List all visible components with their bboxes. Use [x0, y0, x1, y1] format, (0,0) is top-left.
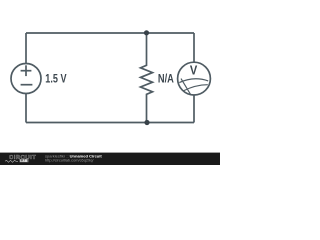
- svg-text:N/A: N/A: [158, 73, 175, 86]
- svg-text:1.5 V: 1.5 V: [45, 72, 66, 85]
- svg-text:LAB: LAB: [20, 159, 28, 163]
- svg-text:V: V: [190, 62, 198, 77]
- svg-text:http://circuitlab.com/c6q29q/: http://circuitlab.com/c6q29q/: [45, 157, 94, 162]
